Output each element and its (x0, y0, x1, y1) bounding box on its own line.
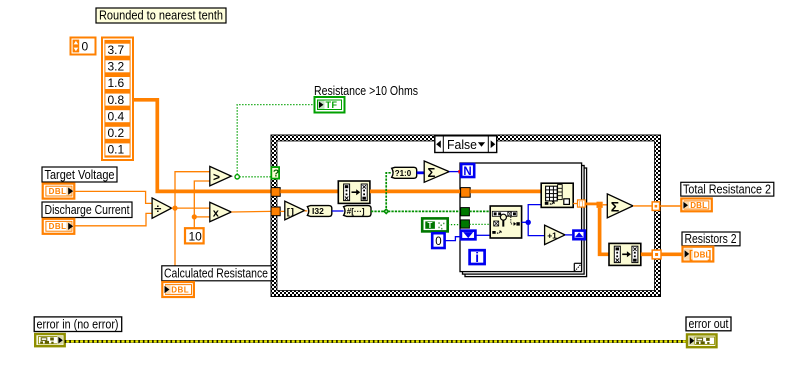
wire tunnel to Resistors DBL (thick) (661, 252, 682, 256)
wire search output to junction (blue) (522, 205, 545, 236)
label Calculated Resistance (162, 266, 271, 281)
wire loop tunnel to delete node (thick orange) (470, 190, 541, 194)
case selector label "False" (435, 136, 497, 153)
label Rounded to nearest tenth (96, 8, 226, 23)
wire Discharge Current to divide (74, 213, 152, 225)
svg-text:i: i (475, 250, 479, 265)
wire green tunnel B to search node dotted (469, 223, 490, 225)
initialize array node #[...] (344, 206, 371, 217)
wire T to green tunnel B dotted (448, 224, 461, 226)
svg-text:N: N (463, 166, 471, 178)
svg-text:error out: error out (689, 316, 729, 331)
svg-text:DBL: DBL (690, 201, 707, 210)
wire shift register to search node (476, 234, 490, 236)
svg-text:Resistance >10 Ohms: Resistance >10 Ohms (314, 83, 418, 98)
reverse 1d array node 2 (609, 243, 641, 265)
array constant frame (102, 38, 133, 161)
case output tunnel (Total Resistance) (652, 202, 659, 211)
wire +1 to shift register right (565, 234, 572, 236)
svg-text:]: ] (708, 249, 712, 261)
greater than node (210, 166, 232, 186)
svg-text:TF: TF (326, 100, 338, 110)
svg-text:3.7: 3.7 (108, 43, 125, 57)
boolean constant T (422, 218, 448, 231)
case output tunnel (Resistors) (652, 250, 661, 259)
wire Target Voltage to divide (74, 191, 152, 203)
svg-text:0.8: 0.8 (108, 93, 125, 107)
wire 0 to shift register (445, 237, 460, 241)
case structure border (271, 135, 661, 297)
label Resistance >10 Ohms (314, 83, 418, 98)
wire greater output green dotted to TF and selector (235, 105, 315, 179)
wire to I32 (305, 210, 308, 212)
svg-text:0: 0 (82, 40, 89, 54)
svg-text:T: T (428, 221, 433, 230)
svg-text:DBL: DBL (49, 222, 67, 231)
svg-text:Σ: Σ (428, 165, 436, 180)
case input tunnel 1 (array) (271, 188, 280, 197)
error wire (65, 340, 686, 343)
wire tunnel2 to array size triangle (280, 210, 285, 212)
loop iteration terminal i (470, 250, 485, 265)
label Resistors 2 (682, 231, 740, 246)
svg-text:DBL: DBL (49, 187, 67, 196)
wire junction down to reverse node 2 (thick orange) (600, 208, 609, 254)
label error in (no error) (34, 316, 122, 331)
case selector terminal ? (271, 167, 279, 180)
label error out (686, 316, 731, 331)
svg-text:Target Voltage: Target Voltage (45, 167, 115, 182)
shift register right (up arrow) (573, 231, 584, 240)
control terminal Discharge Current DBL (43, 219, 75, 234)
loop count terminal N (461, 164, 474, 178)
svg-text:I32: I32 (312, 206, 324, 216)
svg-text:#[···]: #[···] (347, 207, 365, 216)
boolean to 0,1 node ?1:0 (392, 167, 417, 178)
svg-text:Rounded to nearest tenth: Rounded to nearest tenth (99, 8, 223, 23)
shift register left (down arrow) (461, 231, 476, 240)
svg-text:error in (no error): error in (no error) (37, 316, 119, 331)
loop green tunnel B (461, 220, 470, 228)
wire array constant to case tunnel (thick orange) (134, 100, 272, 192)
case input tunnel 2 (scalar) (271, 207, 280, 216)
svg-text:0.4: 0.4 (108, 109, 125, 123)
svg-text:False: False (447, 137, 477, 152)
delete from array node (541, 183, 573, 207)
svg-text:Total Resistance 2: Total Resistance 2 (683, 181, 771, 196)
wire junction to sum2 (603, 204, 608, 206)
indicator terminal Resistors 2 array DBL (683, 247, 714, 262)
loop auto-index input tunnel (orange) (461, 188, 471, 198)
constant 0 (432, 233, 444, 248)
reverse 1d array node (in case) (338, 181, 370, 203)
wire divide output with junction (172, 172, 210, 266)
wire 10 to multiply and greater (192, 181, 210, 228)
loop indexing output tunnel [] (578, 200, 586, 208)
control terminal Target Voltage DBL (43, 184, 75, 199)
wire sum to N with coercion dot (449, 170, 462, 173)
wire tunnel to Total Resistance DBL (660, 205, 681, 207)
svg-text:[: [ (689, 249, 693, 261)
svg-text:+1: +1 (547, 230, 557, 240)
svg-text:10: 10 (189, 229, 203, 243)
increment node +1 (545, 225, 565, 244)
array index display (71, 38, 96, 55)
svg-text:?: ? (273, 168, 279, 180)
svg-text:x: x (213, 207, 220, 219)
add array elements node (right) (607, 194, 633, 218)
label Total Resistance 2 (681, 181, 774, 196)
wire index tunnel to junction (thick orange) (585, 202, 603, 208)
indicator terminal Total Resistance 2 DBL (681, 199, 712, 212)
conversion node I32 (307, 206, 331, 217)
label Discharge Current (42, 202, 132, 218)
loop green tunnel A (461, 208, 470, 216)
svg-text:[]: [] (579, 202, 584, 208)
multiply node (210, 202, 232, 221)
boolean indicator TF (315, 97, 345, 113)
wire multiply to case tunnel (231, 210, 271, 213)
add array elements node (top) (424, 161, 449, 182)
divide node (152, 198, 172, 218)
wire delete output to index tunnel (573, 203, 577, 205)
svg-text:[]: [] (287, 206, 295, 217)
svg-text:0: 0 (435, 236, 441, 248)
wire I32 to initialize array (blue) (332, 210, 344, 212)
control terminal error in cluster (35, 334, 64, 346)
svg-text:Σ: Σ (611, 199, 619, 215)
svg-text:Resistors 2: Resistors 2 (685, 231, 737, 246)
constant 10 (185, 228, 204, 243)
svg-text:1.6: 1.6 (108, 76, 125, 90)
svg-text:Calculated Resistance: Calculated Resistance (164, 266, 268, 281)
svg-text:÷: ÷ (154, 201, 161, 216)
label Target Voltage (42, 167, 117, 182)
wire reverse2 to case output tunnel (thick) (641, 252, 652, 256)
svg-text:?1:0: ?1:0 (395, 169, 412, 178)
svg-text:0.1: 0.1 (108, 143, 125, 157)
svg-text:Discharge Current: Discharge Current (45, 202, 130, 217)
wire boolean array zigzag with junction (371, 173, 461, 215)
array size triangle node [] (285, 201, 305, 220)
indicator terminal error out cluster (687, 334, 717, 347)
wire sum2 to case output tunnel (633, 205, 652, 207)
svg-text:0.2: 0.2 (108, 126, 125, 140)
svg-text:3.2: 3.2 (108, 60, 125, 74)
for loop page curl (574, 263, 581, 271)
svg-text:>: > (213, 170, 220, 184)
for loop stacked frames (460, 163, 587, 277)
wire green tunnel A to search node (469, 210, 490, 212)
indicator terminal Calculated Resistance DBL (162, 282, 194, 297)
wire tunnel1 to reverse array node (thick orange) (280, 190, 338, 194)
wire ?1:0 to sum (thick blue) (417, 171, 425, 174)
wire reverse node to loop tunnel (thick orange) (370, 190, 461, 194)
search 1d array node (490, 206, 521, 238)
svg-text:DBL: DBL (171, 285, 189, 294)
